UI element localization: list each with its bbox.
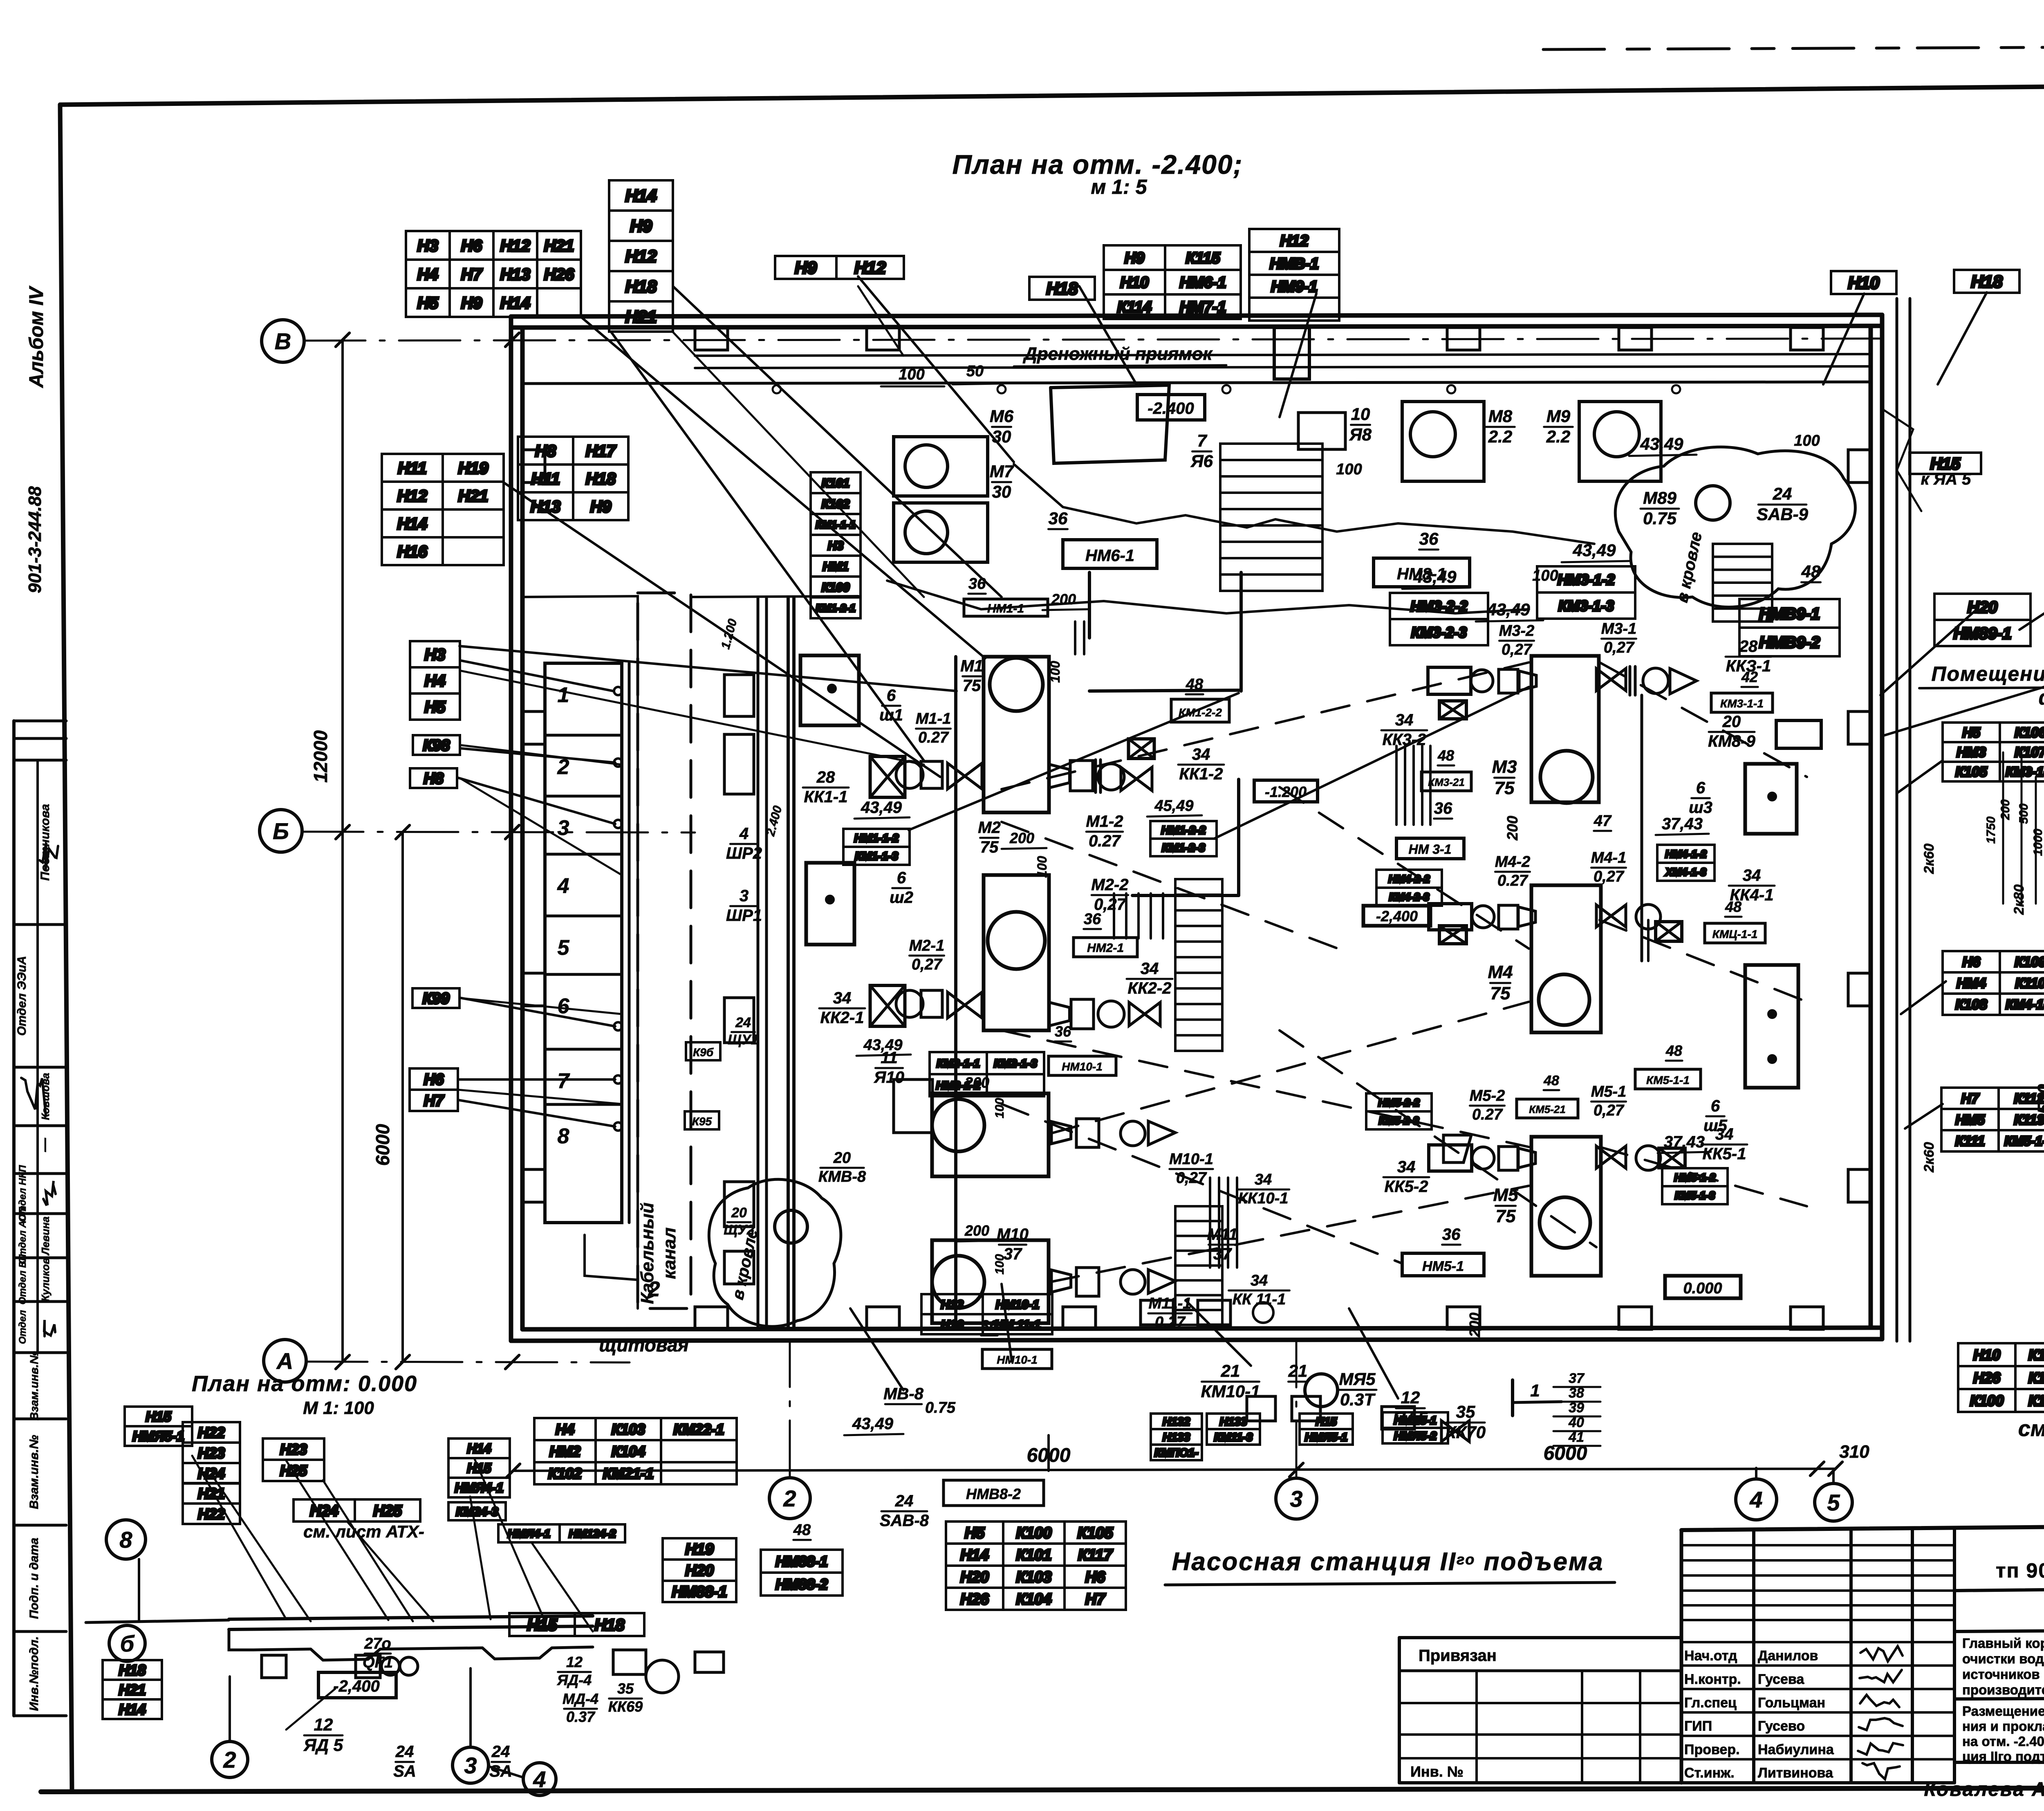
svg-text:6: 6 [558,994,570,1018]
svg-text:36: 36 [1049,509,1068,528]
svg-text:34: 34 [1395,711,1414,729]
svg-text:Н6: Н6 [461,237,482,255]
pump M3 [1531,656,1599,802]
riser lines group M2 [1113,893,1115,938]
svg-text:0.75: 0.75 [925,1399,956,1416]
svg-text:М 1: 100: М 1: 100 [303,1398,374,1418]
svg-text:0.37: 0.37 [566,1708,596,1725]
svg-text:200: 200 [1504,816,1521,841]
svg-text:100: 100 [1048,661,1062,683]
svg-text:0.27: 0.27 [1472,1106,1503,1123]
svg-text:Ковалева Антипова: Ковалева Антипова [1924,1779,2044,1800]
boxes НМ1-2-2/КМ1-2-3 [1150,821,1217,856]
svg-text:34: 34 [1397,1158,1416,1176]
bottom dimension line 6000/6000/310 [513,1469,1836,1471]
svg-text:НМ5-1: НМ5-1 [1422,1259,1464,1274]
svg-text:3: 3 [464,1753,477,1778]
cloud v krovle left bottom [709,1179,841,1326]
svg-text:6: 6 [1711,1097,1720,1115]
svg-text:КМ2-1-1: КМ2-1-1 [937,1057,980,1070]
svg-text:М9: М9 [1546,406,1571,426]
switchgear panel column cells 1-8 [545,663,622,1223]
pump M2 [984,875,1049,1030]
svg-text:Гусева: Гусева [1758,1672,1804,1687]
svg-text:Привязан: Привязан [1419,1647,1497,1665]
M1 left shaft [870,756,905,797]
svg-text:НМВ8-2: НМВ8-2 [966,1486,1021,1502]
wires from tables to plan [858,286,903,356]
svg-text:КМВ-8: КМВ-8 [818,1168,866,1185]
svg-text:Н23: Н23 [280,1441,307,1458]
svg-text:6: 6 [1696,779,1706,797]
mini plan leaders [192,1456,286,1619]
svg-text:НМЯ4-1: НМЯ4-1 [508,1527,550,1540]
svg-text:48: 48 [1437,747,1454,764]
svg-text:27о: 27о [364,1635,391,1652]
svg-text:20: 20 [833,1149,851,1167]
trunk lines top corridor [695,354,1868,356]
trunk vertical right [1896,298,1898,1341]
svg-text:К103: К103 [2028,1369,2044,1386]
svg-text:2к80: 2к80 [2011,884,2027,915]
left margin column [12,721,16,1716]
svg-text:НМ6-1: НМ6-1 [1085,547,1134,565]
svg-text:НМ10-1: НМ10-1 [1062,1060,1103,1073]
boxes Н132 Н133 [1151,1414,1202,1460]
stairs mid-left column [1175,879,1222,1051]
svg-text:4: 4 [557,874,569,898]
svg-text:К106: К106 [2015,725,2044,741]
svg-text:К110: К110 [2015,976,2044,991]
svg-text:Литвинова: Литвинова [1758,1765,1833,1781]
svg-text:0,27: 0,27 [1155,1314,1186,1331]
svg-text:Н11: Н11 [531,470,560,488]
svg-text:НМ124-2: НМ124-2 [569,1527,616,1540]
interior partition walls [757,597,760,1328]
pump M10 [932,1093,1049,1176]
M5 left shaft [1429,1145,1472,1171]
svg-text:Н13: Н13 [531,498,560,516]
svg-text:НМ4-2-2: НМ4-2-2 [1388,873,1430,885]
svg-text:КМ22-1: КМ22-1 [673,1421,724,1438]
svg-text:Я8: Я8 [1349,425,1372,444]
svg-text:12000: 12000 [310,730,331,783]
table H3/H4/H5 [410,641,460,720]
table Н12/НМВ-1/НМ9-1 [1249,229,1339,321]
level box -1.200 [1254,780,1318,802]
svg-text:К9б: К9б [693,1046,714,1059]
bottom of title block [1681,1781,1954,1784]
svg-text:34: 34 [1255,1171,1272,1188]
svg-text:1: 1 [558,683,569,707]
svg-text:34: 34 [1715,1125,1734,1143]
svg-text:36: 36 [968,575,986,592]
svg-text:Взам.инв.№: Взам.инв.№ [28,1351,40,1420]
dashed equipment link lines [1002,662,1529,789]
box К99 [412,988,459,1008]
mini plan labels [125,1407,192,1446]
svg-text:НМ10-1: НМ10-1 [997,1353,1038,1366]
svg-text:QF1: QF1 [363,1654,393,1671]
svg-text:К98: К98 [423,737,450,754]
svg-text:М10-1: М10-1 [1169,1151,1213,1168]
svg-text:КК5-1: КК5-1 [1703,1145,1746,1163]
svg-text:200: 200 [1009,830,1034,846]
M5 right shaft [1596,1146,1626,1168]
svg-text:Н17: Н17 [586,442,616,460]
svg-text:901-3-244.88: 901-3-244.88 [25,486,45,593]
svg-text:Подп. и дата: Подп. и дата [27,1538,41,1619]
box on right wall [1776,720,1821,748]
mini plan channel [229,1616,593,1619]
svg-text:ГИП: ГИП [1684,1719,1712,1734]
svg-text:75: 75 [1496,1206,1516,1226]
table Н6/К109 right [1943,951,2044,1015]
svg-text:Н12: Н12 [397,487,427,505]
svg-text:3: 3 [1290,1486,1302,1512]
svg-text:НМ3-1-2: НМ3-1-2 [1558,571,1615,588]
svg-text:Н5: Н5 [965,1525,985,1542]
svg-text:Взам.инв.№: Взам.инв.№ [27,1435,41,1509]
svg-text:12: 12 [314,1715,333,1734]
stairs right of drain [1713,544,1772,622]
svg-text:2к60: 2к60 [1921,844,1937,874]
svg-text:К117: К117 [1078,1547,1113,1564]
small boxes bottom wall [1247,1396,1275,1421]
box Н18 top right [1954,270,2019,293]
svg-text:11: 11 [881,1049,898,1067]
svg-text:Н18: Н18 [586,470,616,488]
svg-text:21: 21 [1221,1361,1240,1380]
svg-text:А: А [276,1348,293,1374]
building outer wall left [509,316,513,1341]
svg-text:Н7: Н7 [461,265,483,283]
svg-text:КМ3-21: КМ3-21 [1428,776,1465,788]
svg-text:К100: К100 [1016,1525,1052,1542]
pump M1 [984,657,1049,812]
svg-text:Н7: Н7 [1961,1091,1980,1106]
svg-text:МД-4: МД-4 [563,1690,598,1707]
box Н10 top [1831,271,1896,294]
svg-text:НМ3-2-2: НМ3-2-2 [1410,598,1468,615]
box Н18 top-center [1029,277,1095,300]
svg-text:НМ88-2: НМ88-2 [775,1576,828,1593]
svg-text:Н14: Н14 [625,186,657,205]
svg-text:Кабельный: Кабельный [637,1203,657,1304]
boxes НМ5-2-2/КМ5-2-3 [1366,1093,1432,1129]
svg-text:41: 41 [1568,1430,1584,1445]
svg-text:Н15: Н15 [527,1616,557,1634]
svg-text:8: 8 [558,1124,569,1148]
svg-text:МЯ5: МЯ5 [1339,1369,1376,1389]
vertical dimension 12000 [341,340,344,1362]
svg-text:35: 35 [1456,1402,1475,1421]
svg-text:100: 100 [1035,856,1049,878]
svg-text:Провер.: Провер. [1684,1742,1740,1757]
svg-text:Куликов: Куликов [39,1258,52,1302]
svg-text:НМЯ5-2: НМЯ5-2 [1394,1430,1437,1442]
box Н15/к ЯА5 [1910,453,1981,474]
sheet frame [60,83,2044,105]
svg-text:6: 6 [887,687,896,705]
riser lines left of M3 [1395,746,1398,825]
svg-text:4: 4 [533,1766,546,1792]
leader 2 to panel [585,1235,638,1280]
svg-text:2.2: 2.2 [1546,427,1570,446]
svg-text:К109: К109 [2015,954,2044,970]
svg-text:М5-2: М5-2 [1470,1087,1505,1104]
boxes НМВ9-1/2 [1739,599,1840,656]
cabinet ш4-ш5 [1745,965,1798,1088]
svg-text:75: 75 [980,838,999,856]
svg-text:К104: К104 [2028,1392,2044,1409]
svg-text:КМ4-2-3: КМ4-2-3 [1389,891,1430,903]
svg-text:SАВ-8: SАВ-8 [880,1512,929,1530]
svg-text:К102: К102 [548,1465,582,1482]
svg-text:М4-2: М4-2 [1495,853,1531,871]
svg-text:Н21: Н21 [458,487,488,505]
svg-text:3: 3 [740,887,749,905]
svg-text:24: 24 [1773,484,1792,503]
svg-text:К100: К100 [822,581,850,594]
svg-text:М6: М6 [990,406,1014,426]
svg-text:НМ3: НМ3 [1957,745,1986,760]
svg-text:50: 50 [966,363,984,380]
svg-text:Ст.инж.: Ст.инж. [1684,1765,1735,1781]
svg-text:38: 38 [1569,1385,1584,1401]
svg-text:НМ2: НМ2 [549,1443,580,1460]
svg-text:К100: К100 [1970,1392,2004,1409]
svg-text:НМ1-1-2: НМ1-1-2 [854,832,899,844]
svg-text:Н6: Н6 [1085,1569,1105,1586]
svg-text:Н12: Н12 [1280,233,1309,250]
svg-text:Насосная станция IIго подъема: Насосная станция IIго подъема [1172,1548,1604,1576]
svg-text:К101: К101 [2028,1346,2044,1363]
svg-text:В: В [275,328,291,354]
svg-text:Н14: Н14 [467,1441,491,1456]
svg-text:в кровле: в кровле [1673,530,1706,604]
svg-text:200: 200 [1999,799,2012,820]
svg-text:ХМ4-1-3: ХМ4-1-3 [1665,866,1706,878]
svg-text:Н5: Н5 [1962,725,1981,741]
svg-text:см. лист Эм - 23: см. лист Эм - 23 [2018,1416,2044,1441]
svg-text:2500: 2500 [2034,1084,2044,1124]
M3 right shaft [1596,669,1626,691]
svg-text:К101: К101 [1016,1547,1052,1564]
svg-text:Н22: Н22 [198,1506,225,1522]
svg-text:43,49: 43,49 [1640,434,1683,453]
svg-text:0,27: 0,27 [1594,868,1625,885]
svg-text:36: 36 [1442,1225,1461,1243]
svg-text:НМ10-1: НМ10-1 [996,1298,1040,1311]
svg-text:-2,400: -2,400 [1376,908,1418,925]
table H11/H19 [382,454,504,565]
svg-text:ЯД 5: ЯД 5 [303,1735,343,1755]
svg-text:1000: 1000 [2031,828,2044,856]
boxes НМ1-1-2/КМ1-1-3 [843,829,910,865]
svg-text:Н20: Н20 [960,1569,989,1586]
svg-text:Отдел: Отдел [17,1310,28,1344]
wall notch top center [1274,328,1309,379]
svg-text:Н19: Н19 [685,1541,714,1558]
svg-text:на отм. -2.400. Насосная стан-: на отм. -2.400. Насосная стан- [1962,1734,2044,1749]
M10 right shaft [1051,1122,1071,1144]
building outer wall top [511,315,1882,316]
svg-text:Н6: Н6 [424,1071,444,1088]
svg-text:М2: М2 [978,819,1001,837]
svg-text:К104: К104 [1016,1591,1052,1608]
svg-text:4: 4 [739,825,749,843]
table H14/H9/H12/H18/H21 top-left [609,180,673,332]
svg-text:45,49: 45,49 [1154,797,1193,815]
pump M7 [894,503,988,562]
axis circle 4 [1736,1479,1777,1520]
svg-text:Н7: Н7 [424,1093,444,1110]
svg-text:НМ88-1: НМ88-1 [775,1553,828,1570]
svg-text:2: 2 [783,1486,796,1511]
svg-text:Н3: Н3 [424,646,445,664]
svg-text:КМ2-1-3: КМ2-1-3 [994,1057,1037,1070]
axis circle б mini [109,1625,145,1661]
svg-text:310: 310 [1839,1442,1869,1462]
svg-text:К103: К103 [1016,1569,1052,1586]
svg-text:43,49: 43,49 [861,799,902,817]
svg-text:Н9: Н9 [1125,250,1145,267]
svg-text:Н12: Н12 [500,237,530,255]
svg-text:Н21: Н21 [119,1681,146,1698]
svg-text:20: 20 [731,1205,747,1221]
svg-text:100: 100 [1794,432,1820,449]
svg-text:Альбом IV: Альбом IV [26,285,47,388]
svg-text:Н19: Н19 [458,459,489,477]
svg-text:20: 20 [1722,713,1741,731]
svg-text:КМ21-1: КМ21-1 [603,1465,654,1482]
M2 left shaft [870,985,905,1026]
svg-text:ш2: ш2 [890,889,913,907]
M2 right shaft [1049,1002,1069,1026]
svg-text:Н21: Н21 [544,237,574,255]
svg-text:48: 48 [1801,562,1821,581]
svg-text:Н16: Н16 [941,1318,963,1331]
svg-text:План на отм: 0.000: План на отм: 0.000 [192,1371,417,1396]
boxes Н15/НМЯ5 bottom [1300,1414,1353,1445]
vertical dimension 6000 [401,832,404,1362]
cabinet ш3 [1745,764,1797,834]
svg-text:Н18: Н18 [1046,279,1078,298]
svg-text:НМ1-1: НМ1-1 [987,602,1024,615]
svg-text:м 1: 5: м 1: 5 [1091,175,1147,198]
svg-text:Я10: Я10 [874,1068,904,1086]
svg-text:Н11: Н11 [398,459,426,477]
bottom wall fixtures [1141,1300,1173,1325]
svg-text:Н26: Н26 [1973,1369,2001,1386]
svg-text:35: 35 [617,1680,634,1697]
axis circle А [264,1340,306,1382]
title block columns upper [1752,1529,1755,1783]
svg-text:ЯД-4: ЯД-4 [557,1672,592,1688]
svg-text:Н20: Н20 [1968,598,1997,616]
svg-text:2.2: 2.2 [1488,427,1512,446]
svg-text:НМ4-1-2: НМ4-1-2 [1665,848,1707,860]
svg-text:КМ5-1-1: КМ5-1-1 [1646,1074,1690,1086]
pump M6 [894,437,988,496]
svg-text:КМ1-2-3: КМ1-2-3 [1162,842,1205,854]
svg-text:34: 34 [1141,960,1159,978]
svg-text:НМ1: НМ1 [823,560,848,573]
svg-text:Нач.отд: Нач.отд [1684,1648,1737,1664]
svg-text:КК5-2: КК5-2 [1385,1178,1428,1196]
svg-text:Б: Б [273,818,289,844]
svg-text:Левина: Левина [39,1216,52,1256]
svg-text:0,27: 0,27 [1604,639,1635,656]
table 4x3 top-left [406,231,581,317]
small connectors top wall [773,385,781,393]
svg-text:28: 28 [816,768,835,786]
boxes НМ4-2-2/КМ4-2-3 [1376,870,1442,906]
M4 left shaft [1429,904,1472,930]
svg-text:36: 36 [1055,1023,1071,1040]
svg-text:75: 75 [1490,983,1511,1003]
building outer wall bottom [511,1339,1882,1341]
svg-text:Н3: Н3 [417,237,438,255]
mini plan boxes [262,1655,286,1678]
svg-text:Н7: Н7 [1085,1591,1106,1608]
svg-text:М5-1: М5-1 [1591,1083,1627,1100]
table Н20/НМ89-1 right [1934,594,2031,646]
svg-text:НМ88-1: НМ88-1 [672,1584,727,1601]
svg-text:М4: М4 [1488,962,1513,982]
table Н5/К106/КМ3-2 right [1943,723,2044,781]
svg-text:43,49: 43,49 [1413,567,1457,586]
svg-text:Н133: Н133 [1220,1415,1247,1428]
svg-text:24: 24 [735,1015,751,1030]
main title cell [1953,1530,1956,1783]
svg-text:39: 39 [1569,1400,1584,1416]
axis circle 5 [1815,1483,1852,1521]
svg-text:канал: канал [659,1228,679,1279]
top corridor inner line [522,382,1871,384]
boxes Н9 Н12 top [775,256,904,279]
pump M5 [1531,1137,1601,1276]
svg-text:200: 200 [964,1222,989,1239]
svg-text:НМ4: НМ4 [1957,976,1986,991]
svg-text:М3-2: М3-2 [1499,622,1535,640]
svg-text:Н15: Н15 [146,1409,171,1425]
pipe riser right of M3 [1641,695,1643,961]
svg-text:НМ5-2-2: НМ5-2-2 [1378,1096,1420,1109]
svg-text:Н12: Н12 [854,258,886,277]
M11 right shaft [1051,1270,1071,1292]
small cabinet boxes along wall [724,675,754,716]
svg-text:Н18: Н18 [625,277,657,296]
svg-text:Н14: Н14 [397,515,427,533]
svg-text:КМ10-1: КМ10-1 [1201,1382,1260,1401]
svg-text:0.27: 0.27 [918,729,949,746]
svg-text:Отдел ЭЭиА: Отдел ЭЭиА [15,956,29,1036]
svg-text:Н18: Н18 [594,1616,625,1634]
svg-text:6000: 6000 [372,1124,393,1166]
drain pit room walls [1239,572,1243,691]
signature rows [1681,1664,1954,1667]
svg-text:500: 500 [2017,803,2031,824]
table Н6/Н7 [410,1068,458,1111]
svg-text:К99: К99 [423,990,450,1008]
svg-text:75: 75 [1495,778,1515,798]
svg-text:НМЯ5-1: НМЯ5-1 [1305,1431,1347,1443]
cable channel dashed [638,593,691,1308]
wall pilasters left [522,450,545,482]
svg-text:К101: К101 [822,476,850,490]
